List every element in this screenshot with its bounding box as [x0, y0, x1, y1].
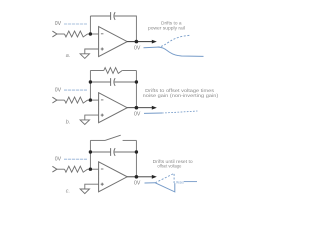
output node (circuit a)	[135, 40, 139, 44]
svg-text:Reset: Reset	[176, 180, 184, 184]
output node (circuit b)	[135, 106, 139, 110]
feedback capacitor (circuit c)	[111, 148, 116, 156]
svg-text:noise gain (non-inverting gain: noise gain (non-inverting gain)	[143, 93, 219, 99]
right feedback vertical wire (circuit b)	[135, 71, 137, 108]
node capacitor branch left (circuit c)	[89, 150, 92, 153]
svg-text:c.: c.	[66, 188, 70, 194]
output wire with arrow (circuit a)	[127, 41, 153, 43]
svg-text:0V: 0V	[55, 156, 62, 162]
feedback wire capacitor right to output (circuit a)	[115, 16, 137, 42]
right feedback vertical wire (circuit c)	[135, 140, 137, 176]
output wire with arrow (circuit c)	[127, 176, 153, 178]
input resistor (circuit b)	[65, 97, 88, 103]
feedback resistor branch right wire (circuit b)	[122, 70, 136, 72]
0V input dashed reference line (circuit c)	[64, 158, 87, 160]
node at inverting input (circuit b)	[89, 98, 92, 101]
svg-text:0V: 0V	[55, 21, 62, 27]
output waveform solid flat (circuit b)	[144, 112, 162, 114]
feedback wire left vertical (circuit c)	[89, 140, 91, 169]
node capacitor branch right (circuit b)	[135, 80, 138, 83]
feedback capacitor (circuit a)	[111, 12, 116, 20]
waveform after reset flat (circuit c)	[184, 181, 197, 183]
op-amp (circuit c)	[99, 162, 128, 192]
output waveform dashed drift up and reset (circuit c)	[155, 173, 174, 183]
svg-text:b.: b.	[66, 119, 71, 125]
feedback resistor (circuit b)	[104, 68, 122, 74]
output wire with arrow (circuit b)	[127, 107, 153, 109]
reset switch left wire (circuit c)	[90, 139, 105, 141]
wire resistor to op-amp inverting input (circuit b)	[88, 99, 99, 101]
non-inverting input wire to ground (circuit c)	[85, 184, 99, 189]
feedback resistor branch left wire (circuit b)	[90, 70, 103, 72]
output node (circuit c)	[135, 175, 139, 179]
node at inverting input (circuit a)	[89, 32, 92, 35]
input resistor (circuit c)	[65, 166, 88, 172]
ground symbol (circuit a)	[80, 54, 89, 59]
0V input dashed reference line (circuit a)	[64, 23, 87, 25]
output arrowhead (circuit a)	[152, 40, 157, 44]
op-amp (circuit a)	[99, 27, 128, 57]
wire input arrow to resistor (circuit c)	[57, 168, 65, 170]
feedback capacitor (circuit b)	[111, 78, 116, 86]
capacitor branch right wire (circuit c)	[115, 151, 137, 153]
ground symbol (circuit c)	[80, 189, 89, 194]
capacitor branch left wire (circuit c)	[90, 151, 110, 153]
capacitor branch right wire (circuit b)	[115, 81, 137, 83]
non-inverting input wire to ground (circuit a)	[85, 49, 99, 54]
output waveform start flat (circuit c)	[145, 182, 156, 184]
input source arrow (circuit a)	[52, 31, 57, 37]
non-inverting input wire to ground (circuit b)	[85, 115, 99, 120]
output waveform solid drift down and reset (circuit c)	[155, 183, 175, 192]
output waveform dashed slight drift (circuit b)	[162, 111, 198, 113]
input resistor (circuit a)	[65, 31, 88, 37]
svg-text:Drifts to a: Drifts to a	[161, 21, 182, 27]
input source arrow (circuit b)	[52, 97, 57, 103]
feedback wire left vertical (circuit a)	[89, 16, 91, 34]
svg-text:0V: 0V	[134, 181, 141, 187]
node at inverting input (circuit c)	[89, 168, 92, 171]
svg-text:a.: a.	[66, 53, 71, 59]
input source arrow (circuit c)	[52, 166, 57, 172]
svg-text:offset voltage: offset voltage	[157, 164, 181, 170]
svg-text:0V: 0V	[134, 45, 141, 51]
output arrowhead (circuit b)	[152, 106, 157, 110]
svg-text:power supply rail: power supply rail	[148, 26, 185, 32]
reset switch right contact wire (circuit c)	[123, 139, 137, 141]
node capacitor branch right (circuit c)	[135, 150, 138, 153]
output waveform solid drifting down to rail (circuit a)	[144, 47, 204, 56]
feedback wire left vertical (circuit b)	[89, 71, 91, 101]
node capacitor branch left (circuit b)	[89, 80, 92, 83]
wire resistor to op-amp inverting input (circuit a)	[88, 33, 99, 35]
reset switch lever (circuit c)	[105, 135, 121, 140]
op-amp (circuit b)	[99, 93, 128, 123]
wire resistor to op-amp inverting input (circuit c)	[88, 168, 99, 170]
output arrowhead (circuit c)	[152, 175, 157, 179]
wire input arrow to resistor (circuit b)	[57, 99, 65, 101]
output waveform dashed drifting up to rail (circuit a)	[158, 35, 191, 47]
feedback wire to capacitor left (circuit a)	[90, 15, 110, 17]
capacitor branch left wire (circuit b)	[90, 81, 110, 83]
svg-text:0V: 0V	[55, 87, 62, 93]
0V input dashed reference line (circuit b)	[64, 89, 87, 91]
wire input arrow to resistor (circuit a)	[57, 33, 65, 35]
svg-text:0V: 0V	[134, 111, 141, 117]
ground symbol (circuit b)	[80, 120, 89, 125]
